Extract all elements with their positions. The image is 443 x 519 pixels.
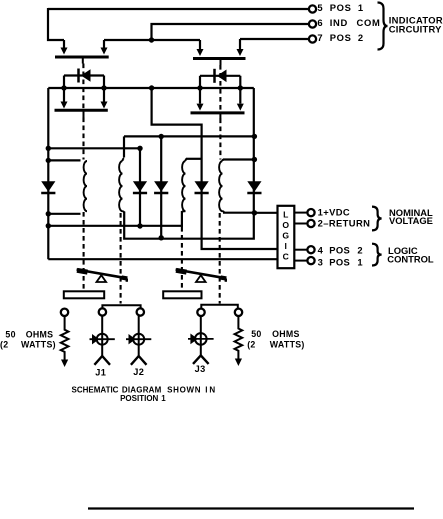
svg-text:50: 50 [251, 329, 261, 339]
svg-text:2–RETURN: 2–RETURN [318, 218, 371, 229]
svg-text:1: 1 [358, 2, 364, 13]
svg-text:3: 3 [318, 257, 324, 268]
svg-text:L: L [283, 209, 288, 219]
svg-text:C: C [283, 251, 289, 261]
svg-text:POS: POS [329, 244, 350, 255]
svg-text:OHMS: OHMS [26, 330, 54, 340]
svg-text:2: 2 [358, 32, 364, 43]
svg-text:(2: (2 [247, 339, 255, 349]
svg-text:WATTS): WATTS) [270, 339, 305, 349]
svg-text:COM: COM [357, 17, 381, 28]
svg-text:POSITION: POSITION [120, 394, 158, 403]
svg-text:WATTS): WATTS) [21, 340, 56, 350]
svg-text:IN: IN [205, 386, 217, 395]
svg-text:J2: J2 [133, 367, 144, 377]
svg-text:7: 7 [317, 32, 323, 43]
svg-text:1+VDC: 1+VDC [318, 207, 350, 218]
svg-text:O: O [282, 220, 289, 230]
svg-text:5: 5 [317, 2, 323, 13]
svg-text:CIRCUITRY: CIRCUITRY [389, 23, 442, 34]
svg-text:I: I [285, 241, 287, 251]
svg-text:SHOWN: SHOWN [167, 386, 201, 395]
svg-text:CONTROL: CONTROL [387, 254, 434, 265]
svg-text:J1: J1 [95, 367, 106, 377]
svg-text:4: 4 [318, 244, 324, 255]
svg-text:1: 1 [357, 257, 363, 268]
svg-text:(2: (2 [0, 340, 8, 350]
svg-text:2: 2 [357, 244, 363, 255]
svg-text:6: 6 [317, 17, 323, 28]
svg-text:J3: J3 [195, 364, 206, 374]
svg-text:POS: POS [329, 257, 350, 268]
svg-text:POS: POS [330, 2, 352, 13]
svg-text:G: G [282, 230, 289, 240]
svg-text:IND: IND [330, 17, 348, 28]
svg-text:POS: POS [330, 32, 352, 43]
svg-text:50: 50 [5, 330, 15, 340]
svg-text:SCHEMATIC: SCHEMATIC [72, 386, 119, 395]
svg-text:OHMS: OHMS [272, 329, 300, 339]
svg-text:1: 1 [161, 394, 166, 403]
svg-text:VOLTAGE: VOLTAGE [389, 215, 433, 226]
